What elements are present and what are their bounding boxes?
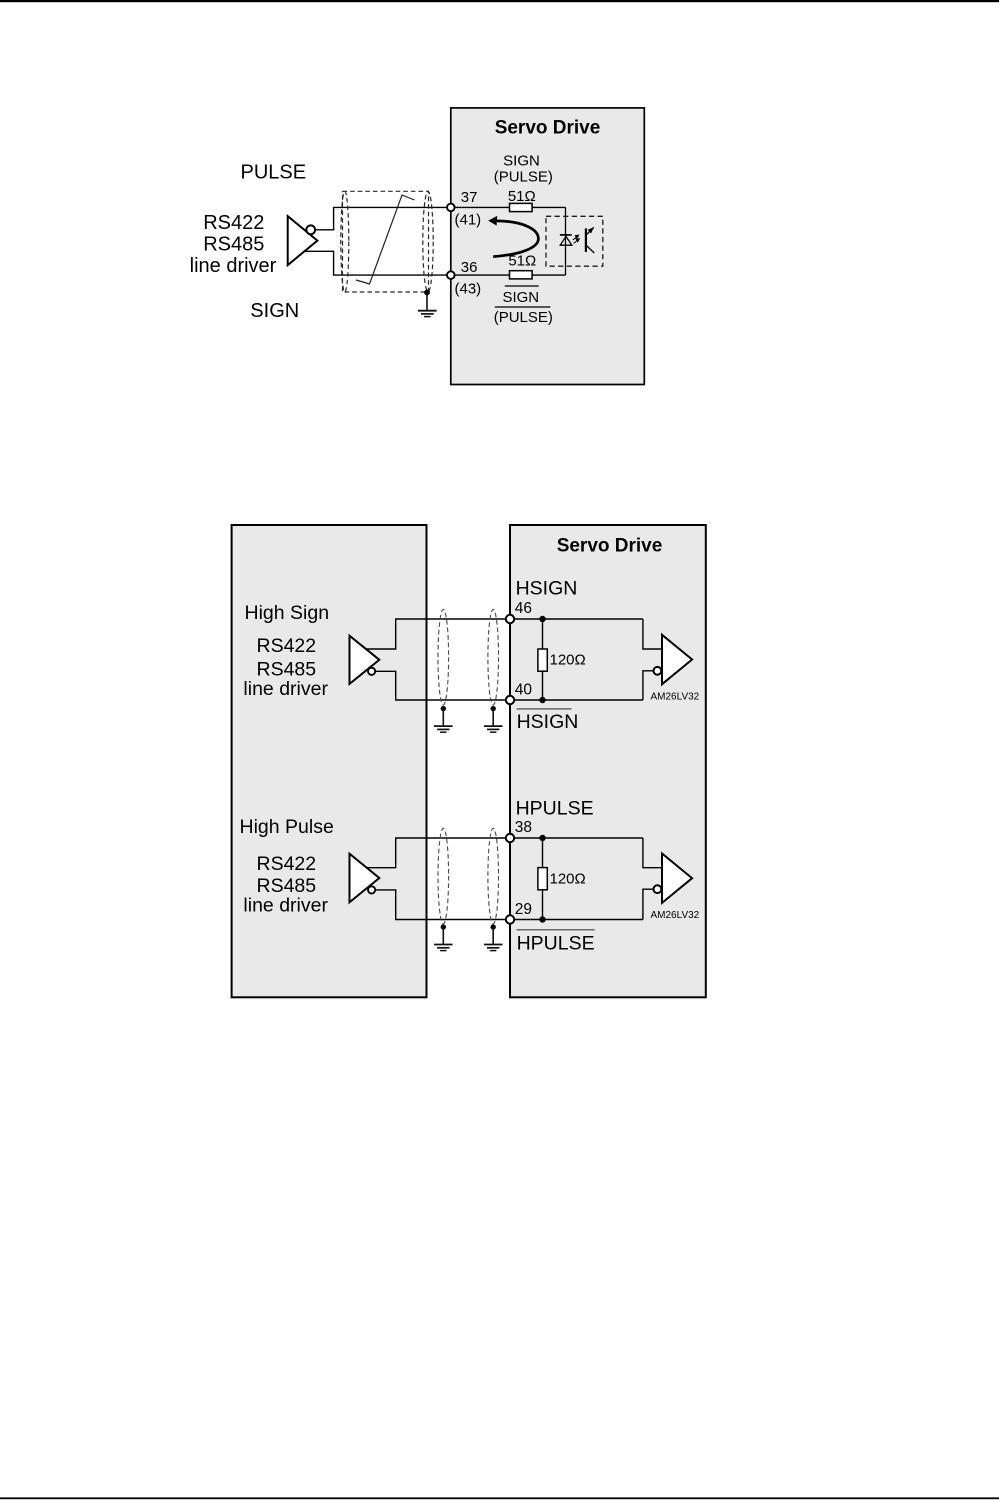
wire: pin 36 to opto loop — [455, 274, 566, 276]
svg-text:38: 38 — [515, 819, 532, 836]
svg-text:(PULSE): (PULSE) — [494, 169, 553, 186]
svg-text:SIGN: SIGN — [503, 152, 540, 169]
svg-text:(43): (43) — [455, 280, 482, 297]
inverting input bubble (HPULSE receiver) — [654, 885, 662, 893]
optocoupler U2 (dashed outline) — [546, 216, 603, 266]
wire: pin 40 to receiver — [515, 699, 643, 701]
twisted pair shield ellipse A (HPULSE) — [438, 828, 449, 924]
wire: pin 37 to opto loop — [455, 206, 566, 208]
junction node 38 — [539, 835, 545, 841]
wire: jog to receiver + input (HPULSE) — [643, 838, 662, 868]
inverting input bubble (HSIGN receiver) — [654, 667, 662, 675]
line driver U (HSIGN) — [350, 636, 380, 684]
inverting bubble (HSIGN driver) — [368, 668, 375, 675]
svg-text:(41): (41) — [455, 212, 482, 229]
page header rule — [0, 0, 999, 2]
ground A (HSIGN) — [434, 709, 453, 733]
svg-text:RS422: RS422 — [256, 635, 316, 657]
svg-text:SIGN: SIGN — [502, 289, 539, 306]
svg-text:29: 29 — [515, 901, 532, 918]
wire: jog to receiver - input (HPULSE) — [643, 889, 654, 919]
LED D1 (optocoupler input) — [560, 235, 572, 245]
LED emission arrows — [573, 235, 580, 243]
Servo Drive enclosure (bottom diagram) — [510, 525, 706, 997]
label RS422 RS485 line driver (HPULSE) — [243, 853, 328, 917]
net label SIGN (PULSE) — [494, 152, 553, 185]
current flow arrow — [488, 216, 538, 257]
svg-text:HSIGN: HSIGN — [517, 711, 579, 733]
svg-text:Servo Drive: Servo Drive — [495, 118, 601, 139]
svg-text:HPULSE: HPULSE — [516, 798, 594, 820]
svg-text:AM26LV32: AM26LV32 — [651, 692, 700, 703]
twisted pair shield ellipse B (HSIGN) — [488, 609, 499, 705]
line driver enclosure (bottom diagram) — [232, 525, 427, 997]
svg-text:line driver: line driver — [243, 678, 328, 700]
svg-text:120Ω: 120Ω — [550, 652, 586, 669]
svg-text:51Ω: 51Ω — [508, 188, 536, 205]
pin 37 terminal — [447, 204, 455, 212]
wire: pin 46 to receiver — [515, 618, 643, 620]
net label (PULSE)-bar — [494, 307, 553, 326]
wire: pin 29 to receiver — [515, 919, 643, 921]
net label SIGN-bar — [502, 286, 539, 306]
svg-text:line driver: line driver — [190, 255, 277, 277]
wire: driver inverted output to pin 29 — [375, 890, 505, 920]
twisted pair crossover — [356, 195, 415, 284]
shield ground node A (HSIGN) — [441, 706, 446, 711]
twisted pair shield ellipse B (HPULSE) — [488, 828, 499, 924]
resistor R1 51ohm (top) — [510, 203, 533, 211]
svg-text:High Pulse: High Pulse — [240, 816, 334, 838]
svg-text:46: 46 — [515, 600, 532, 617]
svg-text:HPULSE: HPULSE — [517, 932, 595, 954]
terminating resistor 120ohm (HPULSE) — [538, 838, 547, 920]
junction node 46 — [539, 616, 545, 622]
label RS422 RS485 line driver (HSIGN) — [243, 635, 328, 700]
ground A (HPULSE) — [434, 927, 453, 951]
svg-text:36: 36 — [461, 259, 478, 276]
wire: U1 bubble to pin 37 — [315, 207, 447, 229]
page footer rule — [0, 1497, 999, 1499]
pin 46 terminal — [506, 615, 514, 623]
svg-text:RS485: RS485 — [203, 234, 264, 256]
wire: driver output to pin 46 — [366, 619, 505, 649]
wire: driver inverted output to pin 40 — [375, 671, 505, 700]
ground (cable shield, top diagram) — [418, 293, 437, 317]
line driver U (HPULSE) — [350, 854, 380, 903]
svg-text:HSIGN: HSIGN — [516, 578, 578, 600]
shield ground junction node — [424, 290, 430, 296]
net label HPULSE-bar — [517, 930, 595, 955]
pin 36 terminal — [447, 271, 455, 279]
Servo Drive enclosure (top diagram) — [451, 108, 645, 385]
svg-text:120Ω: 120Ω — [550, 870, 586, 887]
svg-text:AM26LV32: AM26LV32 — [651, 910, 700, 921]
phototransistor Q1 (optocoupler output) — [586, 227, 594, 253]
svg-text:PULSE: PULSE — [241, 162, 307, 184]
line driver U1 (top diagram) — [288, 216, 318, 265]
junction node 40 — [539, 697, 545, 703]
terminating resistor 120ohm (HSIGN) — [538, 619, 547, 700]
pin 29 terminal — [506, 915, 514, 923]
svg-text:line driver: line driver — [243, 894, 328, 916]
svg-text:(PULSE): (PULSE) — [494, 309, 553, 326]
ground B (HSIGN) — [484, 709, 503, 733]
wire: pin 38 to receiver — [515, 837, 643, 839]
U1 inverting output bubble — [306, 225, 315, 234]
shielded cable (dashed shield, top diagram) — [341, 191, 433, 292]
svg-text:37: 37 — [461, 189, 478, 206]
shield ground node A (HPULSE) — [441, 924, 446, 929]
svg-text:High Sign: High Sign — [245, 602, 330, 624]
svg-text:40: 40 — [515, 681, 533, 698]
label RS422 RS485 line driver (top) — [190, 212, 277, 277]
junction node 29 — [539, 916, 545, 922]
wire: U1 output to pin 36 — [305, 251, 448, 275]
shield ground node B (HPULSE) — [491, 924, 496, 929]
svg-text:RS422: RS422 — [203, 212, 264, 234]
wire: driver output to pin 38 — [367, 838, 506, 868]
inverting bubble (HPULSE driver) — [368, 886, 375, 893]
ground B (HPULSE) — [484, 927, 503, 951]
wire: jog to receiver + input (HSIGN) — [643, 619, 662, 649]
svg-text:Servo Drive: Servo Drive — [557, 536, 663, 557]
shield ground node B (HSIGN) — [491, 706, 496, 711]
pin 40 terminal — [506, 696, 514, 704]
receiver U AM26LV32 (HSIGN) — [654, 635, 693, 684]
svg-text:SIGN: SIGN — [250, 300, 299, 322]
wire: optocoupler loop vertical — [565, 207, 567, 275]
pin 38 terminal — [506, 834, 514, 842]
twisted pair shield ellipse A (HSIGN) — [438, 609, 449, 705]
resistor R2 51ohm (bottom) — [510, 271, 533, 279]
net label HSIGN-bar — [517, 709, 579, 733]
receiver U AM26LV32 (HPULSE) — [654, 854, 693, 903]
svg-text:RS422: RS422 — [256, 853, 316, 875]
wire: jog to receiver - input (HSIGN) — [643, 671, 654, 700]
